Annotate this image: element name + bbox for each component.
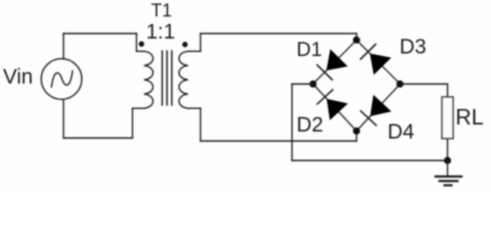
wire drop to primary [136, 34, 138, 52]
wire secondary top riser [200, 34, 202, 52]
ground bar 2 [440, 180, 458, 182]
sine wave inside Vin [52, 71, 73, 87]
transformer core lines [162, 51, 172, 105]
wire primary bottom exit [133, 107, 145, 109]
wire Vin top riser [63, 34, 65, 60]
wire Vin bottom riser [63, 100, 65, 139]
wire top horizontal to bridge [201, 33, 357, 35]
wire secondary bottom stub [188, 107, 201, 109]
voltage source Vin circle [41, 59, 82, 100]
wire RL bottom [447, 139, 449, 161]
polarity dot primary [139, 41, 144, 46]
wire top-left horizontal [64, 33, 137, 35]
diode D2 [316, 89, 348, 121]
junction dot ground node [444, 157, 451, 164]
ground bar 1 [436, 175, 462, 177]
wire right node horizontal [400, 83, 448, 85]
ground stem [447, 161, 449, 176]
svg-text:D4: D4 [388, 121, 415, 144]
wire secondary bottom drop [200, 108, 202, 141]
svg-text:D1: D1 [297, 39, 323, 61]
wire drop to RL top [447, 84, 449, 97]
wire left node to ground run: horizontal [292, 83, 313, 85]
wire drop to bridge top node [356, 34, 358, 41]
svg-text:1:1: 1:1 [146, 21, 175, 44]
junction dot bridge right node [396, 80, 403, 87]
svg-text:Vin: Vin [3, 66, 33, 89]
ground bar 3 [445, 184, 452, 186]
resistor RL body [442, 97, 453, 139]
wire bottom ground horizontal [292, 160, 448, 162]
junction dot bridge left node [309, 80, 316, 87]
polarity dot secondary [182, 42, 187, 47]
svg-text:T1: T1 [151, 1, 172, 21]
wire left node drop [291, 84, 293, 161]
bridge edge right-bottom wire [357, 84, 401, 131]
svg-text:D2: D2 [297, 114, 324, 137]
junction dot bridge top node [353, 36, 360, 43]
wire secondary top stub [188, 50, 201, 52]
diode D1 [316, 49, 348, 81]
wire riser to bridge bottom node [356, 131, 358, 141]
bridge edge top-right wire [357, 40, 401, 84]
transformer T1 secondary winding [179, 51, 188, 108]
transformer T1 primary winding [144, 51, 153, 108]
wire primary bottom drop [132, 108, 134, 138]
svg-text:D3: D3 [400, 36, 427, 59]
diode D4 [359, 95, 391, 127]
svg-text:RL: RL [456, 105, 484, 130]
bridge edge left-bottom wire [313, 84, 357, 131]
wire bottom horizontal to bridge bottom node [201, 140, 357, 142]
junction dot bridge bottom node [353, 127, 360, 134]
wire stub to primary top [137, 50, 145, 52]
wire bottom-left horizontal [64, 137, 133, 139]
bridge edge left-top wire [313, 40, 357, 84]
diode D3 [359, 43, 391, 75]
